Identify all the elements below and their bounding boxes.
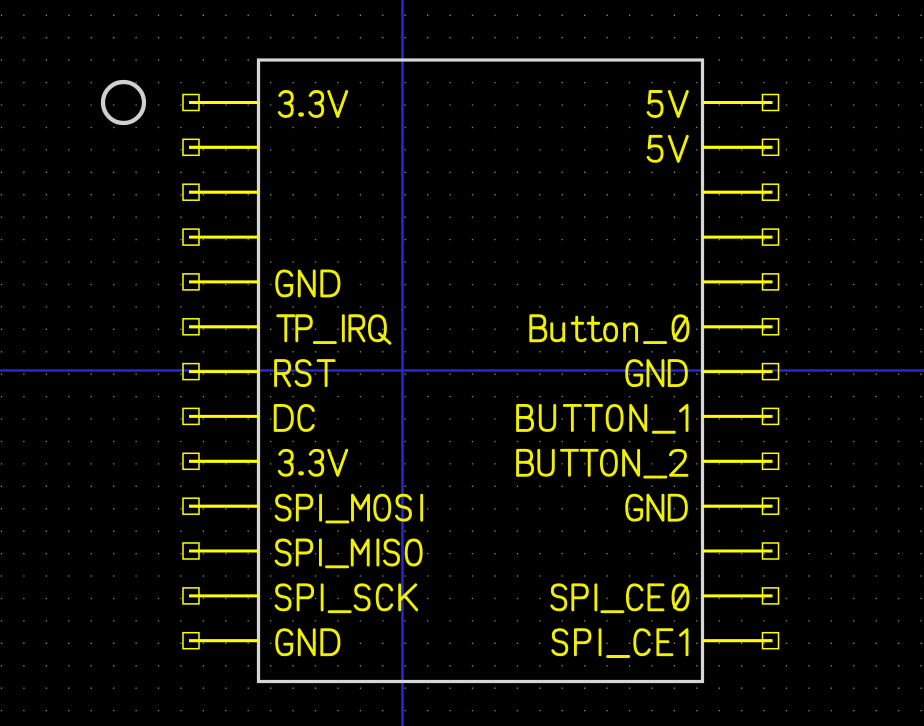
axis: horizontal origin line bbox=[0, 369, 924, 371]
pin end pad square bbox=[183, 453, 199, 469]
left pin 9: 3.3V bbox=[183, 450, 347, 475]
left pin 1: 3.3V bbox=[183, 92, 347, 117]
pin end pad square bbox=[183, 633, 199, 649]
pin name label: SPI_CE0 bbox=[552, 585, 566, 610]
pin name label: SPI_MISO bbox=[276, 540, 290, 565]
pin name label: 3.3V bbox=[279, 92, 292, 117]
pin end pad square bbox=[183, 543, 199, 559]
right pin 9: BUTTON_2 bbox=[518, 450, 779, 477]
left pin 3: unnamed bbox=[183, 184, 259, 200]
right pin 7: GND bbox=[627, 361, 779, 386]
pin end pad square bbox=[183, 319, 199, 335]
pin wire segment bbox=[189, 101, 259, 104]
pin wire segment bbox=[703, 549, 773, 552]
pin end pad square bbox=[183, 498, 199, 514]
pin name label: 5V bbox=[648, 92, 662, 117]
pin wire segment bbox=[703, 639, 773, 642]
right pin 10: GND bbox=[627, 495, 779, 520]
pin name label: TP_IRQ bbox=[284, 316, 287, 341]
anchor circle marker bbox=[103, 82, 144, 123]
right pin 3: unnamed bbox=[703, 184, 779, 200]
pin end pad square bbox=[183, 364, 199, 380]
right pin 11: unnamed bbox=[703, 543, 779, 559]
pin end pad square bbox=[763, 364, 779, 380]
pin wire segment bbox=[703, 370, 773, 373]
pin name label: SPI_CE1 bbox=[553, 630, 567, 655]
pin name label: GND bbox=[627, 361, 642, 386]
pin name label: SPI_MOSI bbox=[276, 495, 290, 520]
pin end pad square bbox=[763, 139, 779, 155]
pin wire segment bbox=[703, 280, 773, 283]
right pin 12: SPI_CE0 bbox=[552, 585, 779, 612]
pin wire segment bbox=[703, 415, 773, 418]
pin name label: SPI_SCK bbox=[276, 585, 290, 610]
pin wire segment bbox=[189, 146, 259, 149]
pin wire segment bbox=[703, 146, 773, 149]
right pin 2: 5V bbox=[648, 136, 778, 161]
pin wire segment bbox=[189, 639, 259, 642]
pin end pad square bbox=[763, 408, 779, 424]
pin end pad square bbox=[183, 229, 199, 245]
pin end pad square bbox=[183, 588, 199, 604]
pin end pad square bbox=[763, 184, 779, 200]
pin wire segment bbox=[189, 370, 259, 373]
pin wire segment bbox=[189, 236, 259, 239]
pin wire segment bbox=[189, 280, 259, 283]
pin wire segment bbox=[703, 191, 773, 194]
left pin 7: RST bbox=[183, 361, 334, 386]
pin wire segment bbox=[189, 415, 259, 418]
right pin 6: Button_0 bbox=[531, 316, 779, 343]
pin name label: BUTTON_2 bbox=[518, 450, 532, 475]
pin end pad square bbox=[763, 588, 779, 604]
left pin 6: TP_IRQ bbox=[183, 316, 390, 344]
component body outline (rectangle) bbox=[259, 60, 703, 682]
pin end pad square bbox=[183, 95, 199, 111]
pin end pad square bbox=[763, 95, 779, 111]
pin end pad square bbox=[763, 498, 779, 514]
pin wire segment bbox=[189, 325, 259, 328]
right pin 4: unnamed bbox=[703, 229, 779, 245]
pin name label: Button_0 bbox=[531, 316, 545, 341]
pin name label: DC bbox=[275, 405, 292, 430]
pin wire segment bbox=[703, 236, 773, 239]
left pin 5: GND bbox=[183, 271, 339, 296]
pin name label: 3.3V bbox=[279, 450, 292, 475]
pin end pad square bbox=[763, 633, 779, 649]
right pin 5: unnamed bbox=[703, 274, 779, 290]
pin end pad square bbox=[183, 408, 199, 424]
left pin 10: SPI_MOSI bbox=[183, 495, 422, 522]
pin wire segment bbox=[189, 191, 259, 194]
pin name label: GND bbox=[627, 495, 642, 520]
left pin 12: SPI_SCK bbox=[183, 585, 417, 612]
pin end pad square bbox=[763, 274, 779, 290]
pin end pad square bbox=[183, 274, 199, 290]
right pin 8: BUTTON_1 bbox=[518, 405, 779, 432]
right pin 1: 5V bbox=[648, 92, 778, 117]
pin end pad square bbox=[763, 319, 779, 335]
right pin 13: SPI_CE1 bbox=[553, 630, 779, 657]
pin wire segment bbox=[189, 460, 259, 463]
pin name label: RST bbox=[276, 361, 290, 386]
pin end pad square bbox=[763, 229, 779, 245]
pin end pad square bbox=[763, 453, 779, 469]
pin name label: BUTTON_1 bbox=[518, 405, 532, 430]
axis: vertical origin line bbox=[401, 0, 404, 726]
pin wire segment bbox=[189, 505, 259, 508]
pin wire segment bbox=[189, 594, 259, 597]
pin wire segment bbox=[703, 505, 773, 508]
pin name label: GND bbox=[277, 630, 292, 655]
pin end pad square bbox=[183, 139, 199, 155]
left pin 8: DC bbox=[183, 405, 313, 430]
pin wire segment bbox=[703, 594, 773, 597]
pin end pad square bbox=[763, 543, 779, 559]
left pin 13: GND bbox=[183, 630, 339, 655]
pin name label: 5V bbox=[648, 136, 662, 161]
left pin 11: SPI_MISO bbox=[183, 540, 421, 567]
left pin 4: unnamed bbox=[183, 229, 259, 245]
pin wire segment bbox=[189, 549, 259, 552]
pin wire segment bbox=[703, 325, 773, 328]
pin wire segment bbox=[703, 101, 773, 104]
pin wire segment bbox=[703, 460, 773, 463]
pin name label: GND bbox=[277, 271, 292, 296]
left pin 2: unnamed bbox=[183, 139, 259, 155]
pin end pad square bbox=[183, 184, 199, 200]
